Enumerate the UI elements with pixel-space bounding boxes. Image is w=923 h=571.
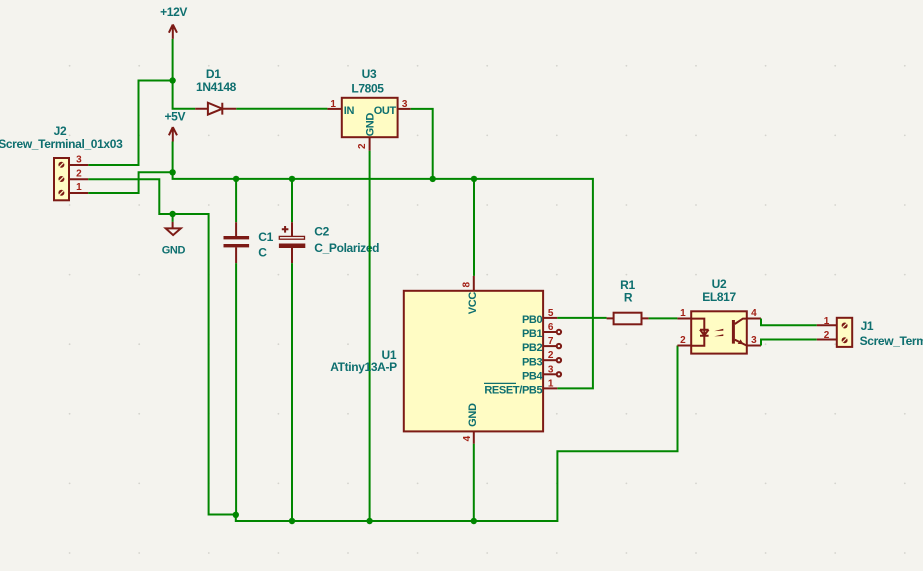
pin 2	[369, 137, 371, 151]
regulator U3	[327, 67, 410, 151]
wire VCC	[473, 179, 475, 276]
wire +5V stem	[172, 142, 174, 173]
svg-text:1N4148: 1N4148	[196, 80, 237, 94]
pin 6 PB1	[543, 331, 557, 333]
phototransistor	[732, 320, 735, 344]
power +12V	[160, 5, 187, 39]
svg-text:PB2: PB2	[522, 342, 543, 354]
resistor R1	[607, 278, 649, 325]
svg-text:8: 8	[462, 282, 473, 288]
svg-text:GND: GND	[162, 244, 186, 256]
capacitor C2	[279, 179, 379, 521]
capacitor C1	[224, 179, 274, 515]
pin 2 PB3	[543, 359, 557, 361]
svg-text:PB3: PB3	[522, 356, 543, 368]
pin 1 RESET/PB5	[543, 387, 557, 389]
pin 1	[69, 192, 88, 194]
junction C2 top	[289, 176, 295, 182]
coupling arrows	[714, 329, 723, 331]
svg-text:2: 2	[357, 143, 368, 149]
svg-text:J2: J2	[54, 124, 67, 138]
wire J2 pin2 to GND	[88, 179, 172, 214]
wire PB0 to R1	[557, 317, 606, 319]
svg-text:RESET/PB5: RESET/PB5	[484, 385, 542, 397]
mcu U1	[330, 276, 561, 521]
connector J2	[0, 124, 123, 201]
svg-text:EL817: EL817	[702, 290, 736, 304]
wire J2 pin1 to +5V junction	[88, 172, 172, 193]
junction C1 top	[233, 176, 239, 182]
wire U3 out to bus	[411, 109, 433, 179]
svg-text:3: 3	[751, 335, 757, 346]
svg-text:6: 6	[548, 322, 554, 333]
svg-text:C1: C1	[258, 230, 273, 244]
pin 1	[327, 108, 341, 110]
wire R1 to U2	[649, 317, 678, 319]
svg-text:R: R	[624, 290, 633, 304]
svg-text:J1: J1	[861, 319, 874, 333]
junction GND	[169, 211, 175, 217]
wire GND to bottom bus	[173, 214, 678, 521]
svg-text:U3: U3	[362, 67, 377, 81]
pin 5 PB0	[543, 317, 557, 319]
pin 8 VCC	[473, 276, 475, 291]
svg-text:4: 4	[751, 308, 757, 319]
pin 1	[677, 318, 691, 320]
svg-text:C: C	[258, 245, 267, 259]
wire +5V bus top	[173, 172, 593, 388]
pin 3	[398, 108, 411, 110]
svg-text:1: 1	[824, 316, 830, 327]
svg-text:2: 2	[548, 350, 554, 361]
wire U2 pin4 to J1 pin1	[761, 319, 817, 326]
svg-text:Screw_Terminal_01x02: Screw_Terminal_01x02	[860, 334, 923, 348]
pin 4	[747, 318, 761, 320]
svg-text:1: 1	[548, 378, 554, 389]
pin 2	[677, 345, 691, 347]
junction VCC	[471, 176, 477, 182]
pin 1	[817, 324, 837, 326]
svg-text:GND: GND	[467, 403, 479, 427]
svg-text:1: 1	[330, 99, 336, 110]
svg-text:2: 2	[680, 335, 686, 346]
junction U3 out	[430, 176, 436, 182]
pin 3	[747, 345, 761, 347]
grid dots	[69, 65, 906, 554]
svg-text:GND: GND	[365, 113, 377, 137]
ground	[162, 214, 186, 256]
svg-text:+5V: +5V	[164, 110, 185, 124]
svg-text:+12V: +12V	[160, 5, 187, 19]
svg-text:Screw_Terminal_01x03: Screw_Terminal_01x03	[0, 137, 123, 151]
pin 4 GND	[473, 431, 475, 443]
svg-text:1: 1	[76, 182, 82, 193]
svg-text:PB4: PB4	[522, 370, 544, 382]
power +5V	[164, 110, 185, 142]
svg-text:PB0: PB0	[522, 314, 543, 326]
svg-text:2: 2	[76, 169, 82, 180]
pin 2	[69, 178, 88, 180]
pin 3	[69, 164, 88, 166]
pin 2	[817, 339, 837, 341]
junction +5V node A	[169, 169, 175, 175]
junction bottom U1	[471, 518, 477, 524]
wire junction to diode	[173, 81, 196, 109]
pin 3 PB4	[543, 373, 557, 375]
wire J2 pin3 to +12V junction	[88, 81, 172, 166]
wire diode to U3	[236, 108, 327, 110]
svg-text:2: 2	[824, 330, 830, 341]
diode D1	[195, 67, 236, 115]
led inside	[691, 319, 708, 346]
svg-text:5: 5	[548, 308, 554, 319]
svg-text:3: 3	[402, 99, 408, 110]
optocoupler U2	[677, 277, 761, 354]
svg-text:U2: U2	[712, 277, 727, 291]
junction bottom C2	[289, 518, 295, 524]
svg-text:ATtiny13A-P: ATtiny13A-P	[330, 360, 397, 374]
svg-text:VCC: VCC	[467, 292, 479, 315]
svg-text:4: 4	[462, 435, 473, 441]
wire U3 gnd to bottom bus	[369, 151, 371, 521]
svg-text:3: 3	[76, 155, 82, 166]
svg-text:L7805: L7805	[351, 81, 384, 95]
junction bottom C1	[233, 512, 239, 518]
svg-text:IN: IN	[344, 105, 355, 117]
svg-text:1: 1	[680, 308, 686, 319]
svg-text:3: 3	[548, 364, 554, 375]
pin 7 PB2	[543, 345, 557, 347]
junction +12V	[169, 77, 175, 83]
svg-text:7: 7	[548, 336, 554, 347]
svg-text:C2: C2	[314, 224, 329, 238]
svg-text:PB1: PB1	[522, 328, 543, 340]
svg-text:D1: D1	[206, 67, 221, 81]
junction bottom U3	[366, 518, 372, 524]
wire U2 pin3 to J1 pin2	[761, 340, 817, 346]
connector J1	[817, 316, 923, 348]
wire +12V stem	[172, 39, 174, 81]
svg-text:OUT: OUT	[374, 105, 397, 117]
